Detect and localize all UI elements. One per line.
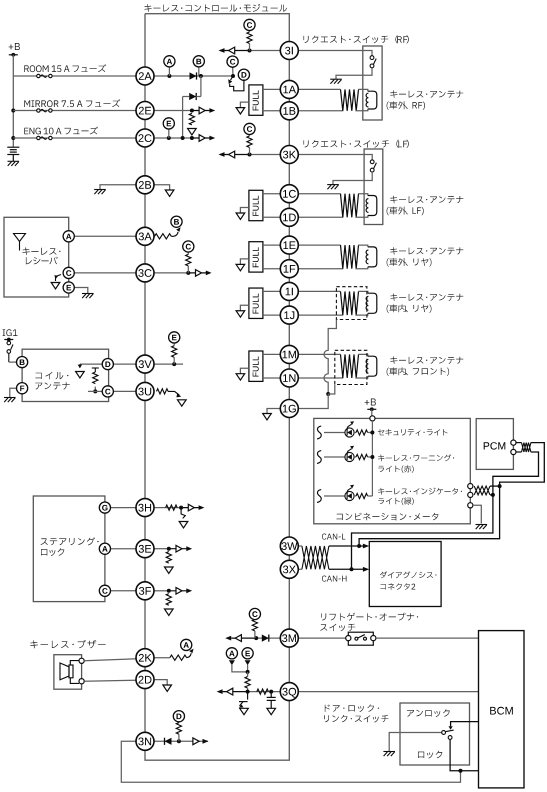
terminal PCM CAN term 2 xyxy=(511,449,516,454)
FULL box rear-out xyxy=(249,242,263,272)
wire front-in rail top right xyxy=(358,354,368,356)
wire FULL LF left stub xyxy=(240,208,249,214)
arrow receiver shield ground arrow xyxy=(51,283,60,289)
label steering lock 2 xyxy=(41,548,64,556)
fuse ROOM 15A xyxy=(37,74,52,77)
antenna coil winding front-in xyxy=(341,354,359,378)
wire rear-in coil bottom rail xyxy=(298,314,343,316)
wire FULL front-in bottom xyxy=(263,377,281,379)
off-page arrow 3E continue xyxy=(169,545,192,552)
receiver antenna symbol xyxy=(14,234,26,251)
label keyless receiver 2 xyxy=(26,257,58,265)
wire 2A output wire xyxy=(154,75,233,77)
wire branch down from 2A node xyxy=(200,76,202,97)
pin 3M (right bus) xyxy=(280,629,298,647)
wire PCM pair lead bottom xyxy=(516,451,522,453)
buzzer speaker xyxy=(60,661,79,684)
wire 3C resistor to C circ xyxy=(187,251,189,254)
wire rear-out rail top right xyxy=(358,245,368,247)
arrow 2B arrow xyxy=(165,190,174,196)
label indicator light 1 xyxy=(378,488,462,495)
resistor R after 2K xyxy=(170,655,187,660)
label ENG fuse xyxy=(24,127,98,135)
connector letter A (receiver pin A) xyxy=(63,231,74,242)
wire meter row 1 wire xyxy=(324,432,345,434)
capacitor at 3Q xyxy=(267,692,276,709)
pin 3Q (right bus) xyxy=(280,683,298,701)
junction interior link node xyxy=(326,392,330,396)
arrow FULL LF arrow xyxy=(236,213,245,219)
wire CAN-H wire xyxy=(329,568,364,570)
junction AE junction xyxy=(246,670,250,674)
wire lock common wire xyxy=(389,733,441,752)
lamp meter lamp 3 xyxy=(345,485,354,501)
continuation squiggle meter row 2 xyxy=(317,451,321,464)
wire 3K to switch xyxy=(298,155,372,160)
FULL box LF xyxy=(249,190,263,220)
connector letter C (C above 3M) xyxy=(249,608,260,619)
label indicator light 2 xyxy=(378,497,414,505)
wire front-in coil bottom rail xyxy=(298,377,343,379)
resistor R above 3N xyxy=(176,723,181,735)
request switch LF box xyxy=(364,149,383,225)
3A hook arrow to B xyxy=(171,227,180,236)
coil shield arrow xyxy=(78,364,83,368)
wire 3K R stub low xyxy=(249,148,251,155)
wire PCM CAN-L route xyxy=(500,443,545,487)
3H hook xyxy=(181,508,185,519)
pin 1N (right bus) xyxy=(280,369,298,387)
wire 2E output wire xyxy=(154,110,192,112)
label lock xyxy=(418,751,442,759)
wire E stub on 2C xyxy=(168,128,170,138)
wire 2D hook xyxy=(154,680,168,685)
wire RF coil top rail xyxy=(298,88,341,90)
wire rear-in coil top rail xyxy=(298,290,341,292)
wire FULL LF bottom xyxy=(263,216,281,218)
pin 1I (right bus) xyxy=(280,282,298,300)
ground ground main xyxy=(8,161,20,166)
pin 3A (left bus) xyxy=(136,227,154,245)
junction 3E junction xyxy=(167,547,171,551)
label +B meter xyxy=(365,399,376,406)
+B terminal +B meter terminal xyxy=(367,407,376,411)
wire LF rail top right xyxy=(358,194,368,196)
junction coil internal node xyxy=(93,389,97,393)
wire meter gnd wire xyxy=(473,505,481,523)
diode D2 or-ing diode xyxy=(189,93,196,100)
resistor R after 3H xyxy=(166,505,178,510)
connector letter B (above diode D1) xyxy=(193,56,204,67)
wire 3Q left wire xyxy=(248,691,281,693)
dashed box rear-in xyxy=(336,287,367,320)
connector letter E (receiver pin E) xyxy=(63,282,74,293)
wire diode branch to vertical xyxy=(196,96,201,98)
+B terminal +B left xyxy=(9,53,18,57)
resistor meter R row 2 xyxy=(356,454,368,459)
wire buzzer to 2D xyxy=(84,680,136,681)
arrow 2E to ground arrow xyxy=(188,129,197,135)
off-page arrow 3Q continue xyxy=(217,688,248,695)
wire PCM pair lead top xyxy=(516,442,522,444)
wire LF rail bottom right xyxy=(355,216,367,218)
pin 1E (right bus) xyxy=(280,236,298,254)
label unlock xyxy=(407,709,450,717)
junction 3Q junction left xyxy=(246,690,250,694)
lamp meter lamp 1 xyxy=(345,421,354,437)
wire 3N R to D circ xyxy=(178,721,180,723)
wire meter row 2 wire xyxy=(324,456,345,458)
label antenna rear-in 1 xyxy=(390,294,463,301)
junction 3H junction xyxy=(179,506,183,510)
pin 3K (right bus) xyxy=(280,146,298,164)
label CAN-L xyxy=(322,534,345,540)
wire B stub xyxy=(198,66,200,76)
arrow E feed arrow xyxy=(245,660,251,665)
wire RF switch to ground xyxy=(336,68,372,79)
junction B+ node ENG xyxy=(11,136,15,140)
label diagnosis 1 xyxy=(380,571,437,578)
wire PCM CAN-H route xyxy=(493,452,539,495)
antenna coil core rear-out xyxy=(366,247,377,267)
wire receiver C to 3C xyxy=(74,272,137,274)
junction 3Q junction cap xyxy=(269,690,273,694)
pin 2A (left bus) xyxy=(136,67,154,85)
wire MIRROR fuse wire xyxy=(13,110,136,112)
wire 3M R to C circ xyxy=(254,617,256,619)
connector letter B (B near 3A) xyxy=(171,216,182,227)
wire 3N output wire xyxy=(154,740,208,742)
resistor R above 3M xyxy=(252,619,257,631)
wire front-in rail bottom right xyxy=(355,376,367,378)
resistor R above 3C xyxy=(186,254,191,266)
ground lock switch ground xyxy=(383,752,395,757)
pin 2D (left bus) xyxy=(136,671,154,689)
wire 3M left wire xyxy=(256,637,281,639)
wire meter row 3 wire xyxy=(324,495,345,497)
coil internal resistor xyxy=(92,368,99,372)
unlock contact arrow xyxy=(449,726,453,730)
wire 3H output wire xyxy=(154,507,182,509)
resistor R below 3F xyxy=(166,594,171,606)
off-page arrow 3M continue xyxy=(225,635,256,642)
arrow FULL front-in arrow xyxy=(236,374,245,380)
pin 2E (left bus) xyxy=(136,102,154,120)
arrow 3U arrow xyxy=(178,400,187,406)
ground RF switch ground xyxy=(330,79,342,84)
antenna coil winding RF xyxy=(341,89,359,110)
pin 2B (left bus) xyxy=(136,176,154,194)
label request switch RF xyxy=(304,35,409,43)
wire 3C R stub low xyxy=(187,266,189,273)
wire 3N R stub low xyxy=(178,734,180,741)
pin 1D (right bus) xyxy=(280,208,298,226)
wire meter CAN-L link xyxy=(490,485,500,487)
junction 2C junction diode branch xyxy=(181,136,185,140)
BCM box xyxy=(479,631,525,788)
wire RF rail top right xyxy=(358,89,368,91)
label IG1 xyxy=(3,329,18,336)
wire E feed wire xyxy=(247,665,249,672)
junction node after D1 xyxy=(199,74,203,78)
wire meter row 3 wire2 xyxy=(354,495,356,497)
connector letter G (lock pin G) xyxy=(99,502,110,513)
wire 3I R to C circ xyxy=(249,30,251,32)
off-page arrow 3I continue xyxy=(219,47,250,54)
junction 3N junction xyxy=(177,739,181,743)
junction 3M junction xyxy=(254,636,258,640)
pin 3V (left bus) xyxy=(136,355,154,373)
IG1 switch xyxy=(7,340,13,363)
label antenna LF 1 xyxy=(390,196,463,204)
wire FULL rear-out bottom xyxy=(263,268,281,270)
wire CAN-H drop xyxy=(352,495,493,569)
keyless receiver box xyxy=(4,217,69,297)
request switch RF box xyxy=(363,46,382,120)
resistor R above 3Q xyxy=(245,677,250,689)
junction 2C junction E stub xyxy=(167,136,171,140)
FULL box rear-in xyxy=(249,288,263,318)
lamp meter lamp 2 xyxy=(345,446,354,462)
resistor R after 3U xyxy=(157,389,169,394)
label +B xyxy=(9,43,20,50)
transistor Q2 at 3Q xyxy=(239,692,248,708)
PCM box xyxy=(476,419,513,470)
connector letter D (D above 3N) xyxy=(173,711,184,722)
connector letter C (C above 3K) xyxy=(244,123,255,134)
wire LF switch to ground xyxy=(333,172,372,185)
wire FULL rear-in left stub xyxy=(240,305,249,311)
connector letter A (lock pin A) xyxy=(99,543,110,554)
wire 3Q R junction stub xyxy=(247,688,249,692)
dashed box front-in xyxy=(335,350,367,384)
junction meter rail node 2 xyxy=(370,455,374,459)
wire 2B left to ground xyxy=(100,185,136,190)
resistor R on 3Q wire xyxy=(257,689,269,694)
label antenna RF 2 xyxy=(387,101,425,110)
wire AE R stub xyxy=(247,672,249,677)
steering lock box xyxy=(33,496,105,602)
wire 2C output wire xyxy=(154,137,192,139)
wire IG1 to coil B xyxy=(9,361,17,363)
label BCM xyxy=(490,707,513,715)
wire coil C to 3U xyxy=(113,390,137,392)
label ROOM fuse xyxy=(24,64,106,72)
wire RF rail bottom right xyxy=(355,109,367,111)
connector letter F (coil pin F) xyxy=(17,383,28,394)
3U hook xyxy=(168,391,181,397)
arrow A feed arrow xyxy=(229,660,235,665)
antenna coil core LF xyxy=(366,196,377,216)
terminal meter +B terminal xyxy=(370,416,375,421)
pin 1J (right bus) xyxy=(280,306,298,324)
ground 2B ground xyxy=(94,190,106,195)
terminal meter CAN term 2 xyxy=(468,492,473,497)
pin 2K (left bus) xyxy=(136,649,154,667)
off-page arrow 2E continue xyxy=(192,107,215,114)
wire +B to meter xyxy=(371,409,373,415)
wire rear-in rail top right xyxy=(358,291,368,293)
pin 1F (right bus) xyxy=(280,260,298,278)
arrow FULL rear-out arrow xyxy=(236,264,245,270)
FULL box RF xyxy=(249,85,263,115)
ground point bars xyxy=(7,147,19,161)
connector letter B (coil pin B) xyxy=(17,357,28,368)
ground receiver ground xyxy=(82,294,94,299)
wire link to 1G xyxy=(298,394,328,409)
wire FULL RF top xyxy=(263,88,281,90)
+B terminal IG1 terminal xyxy=(4,338,13,342)
connector letter A (A above 3Q) xyxy=(226,648,237,659)
twisted pair meter CAN pair xyxy=(474,486,490,495)
resistor R above 3K xyxy=(247,136,252,148)
wire rear-out rail bottom right xyxy=(355,267,367,269)
connector letter A (above 2A wire) xyxy=(164,56,175,67)
junction meter rail node 1 xyxy=(370,431,374,435)
pin 2C (left bus) xyxy=(136,129,154,147)
resistor R after 3A xyxy=(155,234,172,239)
junction node A on 2A wire xyxy=(167,74,171,78)
diagnosis connector box xyxy=(369,542,441,607)
resistor R above 3V xyxy=(172,346,177,358)
wire rear-in rail bottom right xyxy=(355,313,367,315)
twisted pair PCM CAN pair xyxy=(522,443,531,452)
wire 3M to switch xyxy=(298,637,346,639)
pin 3X (right bus) xyxy=(280,560,298,578)
label liftgate 2 xyxy=(320,624,355,632)
wire coil D to 3V xyxy=(113,363,137,365)
FULL box front-in xyxy=(249,351,263,381)
off-page arrow 3H continue xyxy=(181,504,204,511)
connector letter D (D near transistor) xyxy=(238,69,249,80)
CAN-L arrow xyxy=(363,544,369,549)
wire FULL rear-in top xyxy=(263,290,281,292)
connector letter D (coil pin D) xyxy=(102,359,113,370)
fuse ENG 10A xyxy=(37,136,52,139)
wire +B rail xyxy=(12,55,14,147)
label coil antenna 1 xyxy=(35,372,68,379)
wire meter CAN-H link xyxy=(490,494,493,496)
connector letter E (E above 3V) xyxy=(169,332,180,343)
wire 3V output wire xyxy=(154,363,183,365)
wire FULL rear-out left stub xyxy=(240,259,249,265)
wire LF coil bottom rail xyxy=(298,216,343,218)
terminal meter gnd term xyxy=(468,503,473,508)
wire lock G to 3H xyxy=(110,507,137,509)
wire ROOM fuse wire xyxy=(13,75,136,77)
wire 3E output wire xyxy=(154,548,169,550)
junction 3K junction xyxy=(248,153,252,157)
coil antenna box xyxy=(22,349,109,401)
wire buzzer to 2K xyxy=(84,659,136,661)
label antenna front-in 2 xyxy=(387,367,450,376)
wire unlock to BCM xyxy=(451,722,479,727)
3N open arrow xyxy=(193,738,209,745)
LF switch contacts xyxy=(370,160,376,172)
wire FULL LF top xyxy=(263,193,281,195)
label combination meter xyxy=(337,513,439,521)
junction lock line node xyxy=(459,769,463,773)
label keyless receiver 1 xyxy=(23,247,61,255)
label door lock 2 xyxy=(324,715,389,723)
label antenna front-in 1 xyxy=(390,356,463,364)
wire 3V R stub low xyxy=(173,357,175,364)
connector letter E (above 2C wire) xyxy=(163,118,174,129)
lock switch contacts xyxy=(442,730,454,739)
wire CAN-L drop xyxy=(359,486,500,546)
off-page arrow 3C continue xyxy=(188,270,211,277)
wire rear-out coil top rail xyxy=(298,244,341,246)
continuation squiggle meter row 3 xyxy=(317,490,321,503)
pin 1C (right bus) xyxy=(280,185,298,203)
off-page arrow 2C continue xyxy=(192,135,215,142)
wire meter +B rail xyxy=(371,421,373,496)
wire meter row 2 wire3 xyxy=(368,456,373,458)
pin 1A (right bus) xyxy=(280,80,298,98)
junction transistor base node xyxy=(231,74,235,78)
junction 3V junction xyxy=(172,362,176,366)
junction 2E junction xyxy=(190,109,194,113)
wire meter row 3 wire3 xyxy=(368,495,373,497)
label keyless buzzer xyxy=(30,640,105,648)
arrow FULL RF arrow xyxy=(236,108,245,114)
wire meter row 2 wire2 xyxy=(354,456,356,458)
label warning light 2 xyxy=(378,465,414,473)
label antenna rear-out 1 xyxy=(390,247,463,255)
wire 3X wire xyxy=(298,568,302,570)
wire LF coil top rail xyxy=(298,193,341,195)
connector letter C (above transistor) xyxy=(227,56,238,67)
wire FULL RF left stub xyxy=(240,102,249,108)
resistor R below 3E xyxy=(166,552,171,564)
connector letter C (lock pin C) xyxy=(99,585,110,596)
wire 3I left wire xyxy=(250,50,281,52)
pin 1G (right bus) xyxy=(280,400,298,418)
wire 3I R stub low xyxy=(249,44,251,51)
wire 2K wire to res xyxy=(154,657,170,659)
junction CAN-H junction xyxy=(350,567,354,571)
receiver shield arrow xyxy=(54,275,61,282)
pin 3N (left bus) xyxy=(136,732,154,750)
label antenna rear-out 2 xyxy=(387,258,432,267)
junction meter CAN node 1 xyxy=(498,484,502,488)
pin 3E (left bus) xyxy=(136,540,154,558)
terminal buzzer terminal 2 xyxy=(79,679,84,684)
junction 3C junction xyxy=(186,271,190,275)
label MIRROR fuse xyxy=(24,99,120,107)
CAN-H arrow xyxy=(363,567,369,572)
terminal meter CAN term 1 xyxy=(468,484,473,489)
wire FULL rear-out top xyxy=(263,244,281,246)
wire 3M R stub xyxy=(254,631,256,638)
resistor R above 3I xyxy=(247,32,252,44)
wire coil C inside wire xyxy=(88,390,103,392)
label security light xyxy=(378,429,448,436)
combination meter box xyxy=(314,418,471,523)
wire diode branch horizontal xyxy=(183,96,189,98)
label keyless control module xyxy=(145,4,287,12)
wire FULL RF bottom xyxy=(263,110,281,112)
pin 3W (right bus) xyxy=(280,537,298,555)
label CAN-H xyxy=(322,576,347,582)
fuse MIRROR 7.5A xyxy=(37,109,52,112)
arrow FULL rear-in arrow xyxy=(236,311,245,317)
wire 3C output wire xyxy=(154,272,189,274)
pin 3F (left bus) xyxy=(136,582,154,600)
wire C stub top xyxy=(232,66,234,76)
terminal buzzer terminal 1 xyxy=(79,658,84,663)
connector letter C (coil pin C) xyxy=(102,386,113,397)
